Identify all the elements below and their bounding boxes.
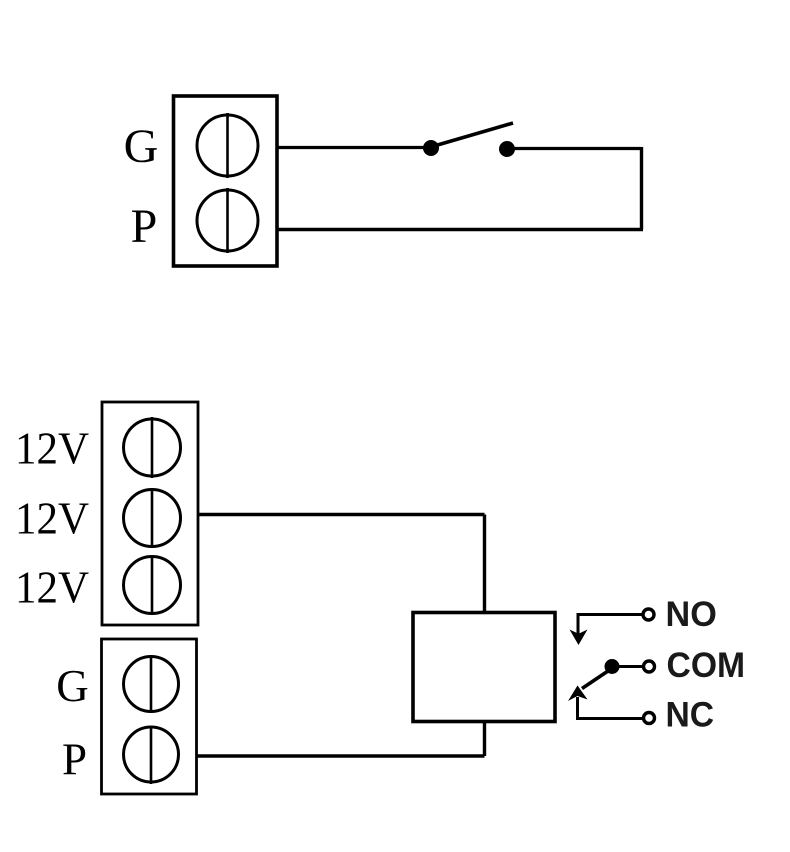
- wire J1.G to switch: [277, 146, 431, 149]
- screw terminal J1 pin P: [197, 188, 258, 253]
- wire NO contact lead: [578, 615, 642, 635]
- screw terminal J2 pin 1 (12V): [124, 417, 181, 478]
- terminal block J1 (top G/P block): [174, 96, 278, 266]
- switch S1: [423, 123, 515, 157]
- svg-text:G: G: [56, 661, 89, 711]
- svg-text:NC: NC: [666, 696, 715, 735]
- svg-text:COM: COM: [667, 646, 746, 685]
- wire COM lead: [612, 665, 643, 668]
- svg-text:P: P: [131, 200, 158, 253]
- svg-text:12V: 12V: [15, 423, 89, 474]
- screw terminal J3 pin P: [124, 726, 179, 784]
- svg-text:G: G: [124, 120, 159, 173]
- relay K1 body: [413, 613, 555, 722]
- wire J3.P to relay (horizontal): [197, 754, 485, 757]
- screw terminal J2 pin 3 (12V): [124, 555, 181, 615]
- terminal block J3 (bottom G/P block): [102, 639, 197, 794]
- screw terminal J1 pin G: [197, 113, 258, 178]
- svg-text:12V: 12V: [15, 562, 89, 613]
- arrow NO (actuation arrow pointing down): [570, 630, 588, 646]
- screw terminal J2 pin 2 (12V): [124, 488, 181, 548]
- contact circle NC: [644, 713, 655, 724]
- wire right vertical segment: [640, 147, 643, 230]
- screw terminal J3 pin G: [124, 655, 179, 713]
- arrow NC (blade arrowhead pointing up): [568, 686, 588, 702]
- node COM (movable contact pivot): [605, 659, 620, 674]
- contact circle COM: [644, 661, 655, 672]
- svg-text:12V: 12V: [15, 493, 89, 544]
- wire switch to top-right corner: [507, 147, 642, 150]
- svg-text:NO: NO: [666, 595, 717, 634]
- wire return to J1.P: [277, 228, 643, 231]
- wire J2 12V to relay (horizontal): [198, 513, 485, 516]
- wire P up into relay (vertical): [483, 722, 486, 757]
- wire NC contact lead: [578, 697, 643, 719]
- svg-text:P: P: [62, 735, 87, 785]
- contact circle NO: [643, 609, 654, 620]
- switch blade from COM: [582, 671, 608, 689]
- wire 12V down into relay (vertical): [483, 515, 486, 613]
- terminal block J2 (12V block): [102, 402, 198, 625]
